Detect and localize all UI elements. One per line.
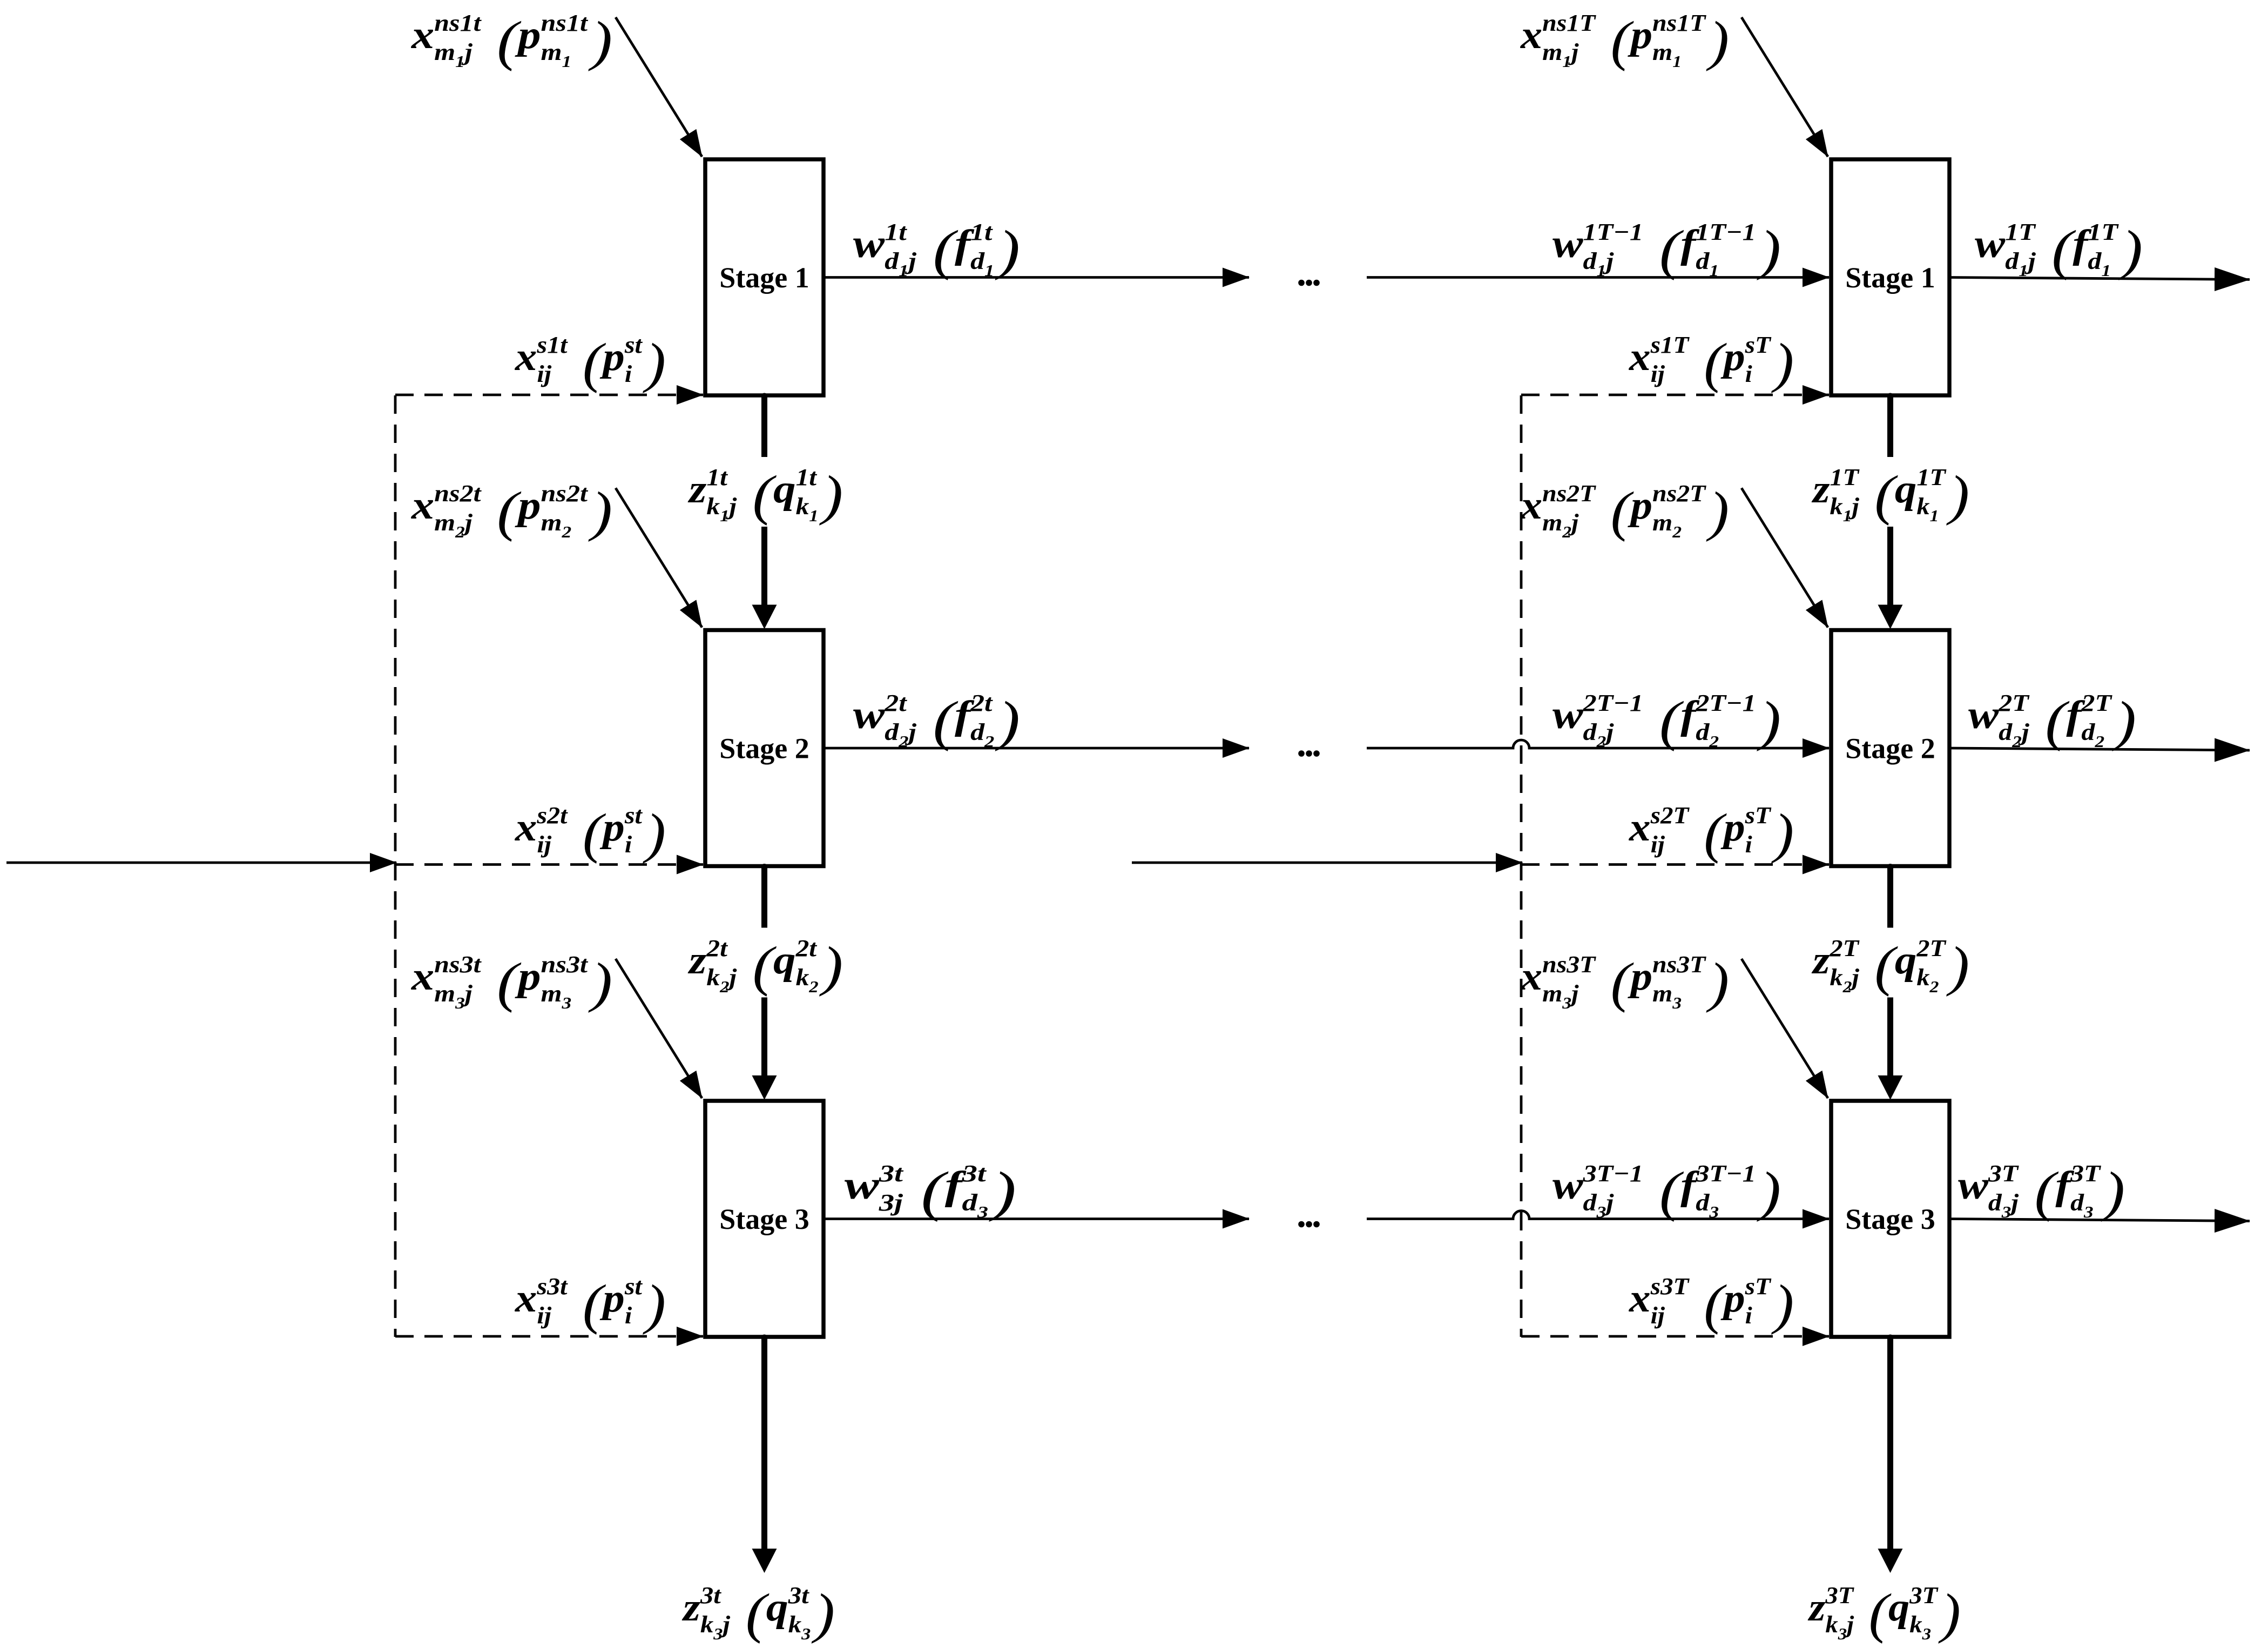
junction dot at bottom of Stage 1 left(t) [761,393,767,399]
wire: w^3T output arrow from Stage 3 right(T) [1949,1219,2250,1221]
wire: w output arrow from Stage 1 left(t) toward ... [823,276,1249,279]
ellipsis dots between periods at stage 1 level [1298,280,1320,286]
wire: diagonal new-material input arrow into Stage 3 left(t) [616,959,702,1098]
wire: thick final z output arrow below Stage 3 left(t) [761,1337,767,1551]
junction dot at bottom of Stage 3 right(T) [1887,1335,1893,1341]
junction dot at bottom of Stage 1 right(T) [1887,393,1893,399]
stage box: Stage 1 left(t) [705,159,823,395]
wire: thick z flow from Stage 1 to Stage 2 right(T) (upper segment) [1887,395,1893,457]
wire: thick z flow from Stage 2 to Stage 3 right(T) (arrow segment) [1887,998,1893,1078]
wire: diagonal new-material input arrow into Stage 1 left(t) [616,17,702,157]
svg-text:Stage 1: Stage 1 [1845,261,1935,294]
wire: w^(3T-1) arrow with hop over dashed line into Stage 3 right(T) [1367,1211,1829,1219]
wire: dashed vertical distribution line left(t) [394,395,397,1337]
wire: thick z flow from Stage 1 to Stage 2 left(t) (upper segment) [761,395,767,457]
wire: w output arrow from Stage 2 left(t) toward ... [823,747,1249,750]
wire: thick final z output arrow below Stage 3 right(T) [1887,1337,1893,1551]
wire: w^(1T-1) arrow into Stage 1 right(T) [1367,276,1829,279]
wire: w^(2T-1) arrow with hop over dashed line into Stage 2 right(T) [1367,740,1829,748]
wire: dashed substitute-material arrow into bottom-left of Stage 1 right(T) [1521,394,1829,396]
svg-text:Stage 2: Stage 2 [719,732,809,765]
wire: dashed substitute-material arrow into bottom-left of Stage 2 left(t) [395,863,703,866]
stage box: Stage 3 left(t) [705,1101,823,1337]
svg-text:Stage 1: Stage 1 [719,261,809,294]
wire: thick z flow from Stage 1 to Stage 2 right(T) (arrow segment) [1887,527,1893,607]
wire: diagonal new-material input arrow into Stage 2 left(t) [616,488,702,628]
svg-text:Stage 2: Stage 2 [1845,732,1935,765]
svg-text:Stage 3: Stage 3 [1845,1203,1935,1235]
wire: w output arrow from Stage 3 left(t) toward ... [823,1217,1249,1220]
ellipsis dots between periods at stage 3 level [1298,1221,1320,1228]
wire: diagonal new-material input arrow into Stage 3 right(T) [1742,959,1828,1098]
wire: thick z flow from Stage 2 to Stage 3 left(t) (upper segment) [761,866,767,928]
wire: long solid feed arrow from left edge into dashed line left(t) [6,862,396,864]
wire: w^1T output arrow from Stage 1 right(T) [1949,278,2250,280]
junction dot at bottom of Stage 2 right(T) [1887,864,1893,870]
wire: dashed substitute-material arrow into bottom-left of Stage 2 right(T) [1521,863,1829,866]
wire: w^2T output arrow from Stage 2 right(T) [1949,748,2250,750]
wire: diagonal new-material input arrow into Stage 2 right(T) [1742,488,1828,628]
wire: thick z flow from Stage 2 to Stage 3 right(T) (upper segment) [1887,866,1893,928]
stage box: Stage 2 left(t) [705,630,823,866]
wire: solid feed arrow into dashed line right(T) [1132,862,1522,864]
wire: diagonal new-material input arrow into Stage 1 right(T) [1742,17,1828,157]
stage box: Stage 3 right(T) [1831,1101,1949,1337]
ellipsis dots between periods at stage 2 level [1298,750,1320,757]
junction dot at bottom of Stage 2 left(t) [761,864,767,870]
wire: dashed substitute-material arrow into bottom-left of Stage 3 left(t) [395,1335,703,1338]
wire: dashed vertical distribution line right(T) [1520,395,1523,1337]
wire: dashed substitute-material arrow into bottom-left of Stage 1 left(t) [395,394,703,396]
wire: thick z flow from Stage 1 to Stage 2 left(t) (arrow segment) [761,527,767,607]
stage box: Stage 2 right(T) [1831,630,1949,866]
wire: thick z flow from Stage 2 to Stage 3 left(t) (arrow segment) [761,998,767,1078]
wire: dashed substitute-material arrow into bottom-left of Stage 3 right(T) [1521,1335,1829,1338]
junction dot at bottom of Stage 3 left(t) [761,1335,767,1341]
svg-text:Stage 3: Stage 3 [719,1203,809,1235]
stage box: Stage 1 right(T) [1831,159,1949,395]
